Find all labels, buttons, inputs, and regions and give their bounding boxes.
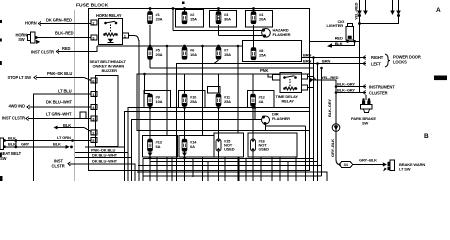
svg-text:4WD IND: 4WD IND xyxy=(9,104,26,109)
svg-text:BRN: BRN xyxy=(303,59,311,64)
svg-text:BLK: BLK xyxy=(8,135,16,140)
svg-text:LT SW: LT SW xyxy=(399,166,411,171)
svg-text:BRN: BRN xyxy=(322,59,330,64)
svg-text:LT BLU: LT BLU xyxy=(58,89,72,94)
svg-text:RIGHT: RIGHT xyxy=(371,55,384,60)
svg-text:4A: 4A xyxy=(259,99,264,104)
svg-text:HORN RELAY: HORN RELAY xyxy=(96,13,122,18)
svg-text:SW: SW xyxy=(362,121,369,126)
svg-text:20A: 20A xyxy=(156,17,163,22)
svg-text:25A: 25A xyxy=(224,99,231,104)
svg-text:25A: 25A xyxy=(190,99,197,104)
svg-text:BLK: BLK xyxy=(8,142,16,147)
svg-text:20A: 20A xyxy=(259,17,266,22)
svg-text:DK GRN–RED: DK GRN–RED xyxy=(46,18,72,23)
svg-text:BLK–GRY: BLK–GRY xyxy=(327,99,332,117)
svg-text:HORN: HORN xyxy=(25,21,37,26)
svg-text:FUSE BLOCK: FUSE BLOCK xyxy=(76,3,109,9)
svg-text:LT GRN–WHT: LT GRN–WHT xyxy=(46,112,72,117)
svg-text:BLK–RED: BLK–RED xyxy=(55,31,74,36)
svg-text:RELAY: RELAY xyxy=(282,99,295,104)
svg-text:BRN: BRN xyxy=(303,53,311,58)
svg-text:CLSTR: CLSTR xyxy=(52,164,65,169)
svg-text:INSTRUMENT: INSTRUMENT xyxy=(369,85,395,90)
svg-text:LEFT: LEFT xyxy=(371,62,381,67)
svg-text:SW: SW xyxy=(18,37,25,42)
svg-text:30A: 30A xyxy=(224,17,231,22)
svg-text:6A: 6A xyxy=(190,144,195,149)
svg-text:INST CLSTR: INST CLSTR xyxy=(2,116,25,121)
svg-text:GRY: GRY xyxy=(21,141,30,146)
svg-text:PNK: PNK xyxy=(260,68,268,73)
svg-text:15A: 15A xyxy=(190,17,197,22)
svg-text:FLASHER: FLASHER xyxy=(272,116,290,121)
svg-text:20A: 20A xyxy=(156,52,163,57)
svg-text:STOP LT SW: STOP LT SW xyxy=(8,75,32,80)
svg-text:25A: 25A xyxy=(259,53,266,58)
svg-text:CLUSTER: CLUSTER xyxy=(369,90,388,95)
svg-text:BUZZER: BUZZER xyxy=(102,68,118,73)
svg-text:10A: 10A xyxy=(190,52,197,57)
svg-text:RED: RED xyxy=(62,46,70,51)
svg-text:LT GRN: LT GRN xyxy=(57,135,71,140)
svg-text:DK BLU–WHT: DK BLU–WHT xyxy=(46,100,72,105)
svg-text:SW: SW xyxy=(0,156,7,161)
svg-text:B: B xyxy=(424,133,429,140)
svg-text:LIGHTER: LIGHTER xyxy=(327,23,344,28)
svg-text:PNK–DK BLU: PNK–DK BLU xyxy=(47,71,72,76)
svg-text:DK BLU–WHT: DK BLU–WHT xyxy=(92,159,118,164)
svg-text:BLK: BLK xyxy=(335,41,343,46)
svg-text:GRY–BLK: GRY–BLK xyxy=(330,139,335,157)
svg-text:GRY–BLK: GRY–BLK xyxy=(359,158,377,163)
svg-text:USED: USED xyxy=(259,147,270,152)
svg-text:YEL–RED: YEL–RED xyxy=(321,75,339,80)
svg-text:DK BLU–WHT: DK BLU–WHT xyxy=(92,152,118,157)
svg-text:BLK: BLK xyxy=(53,142,61,147)
svg-text:6A: 6A xyxy=(156,144,161,149)
svg-text:15A: 15A xyxy=(224,52,231,57)
svg-text:USED: USED xyxy=(224,147,235,152)
svg-text:FLASHER: FLASHER xyxy=(273,32,291,37)
svg-text:BLK–GRY: BLK–GRY xyxy=(337,82,355,87)
svg-text:BLK–GRY: BLK–GRY xyxy=(337,88,355,93)
svg-text:LOCKS: LOCKS xyxy=(393,60,407,65)
svg-text:RED: RED xyxy=(335,36,343,41)
svg-text:A: A xyxy=(436,7,441,14)
svg-text:10A: 10A xyxy=(156,99,163,104)
svg-text:INST CLSTR: INST CLSTR xyxy=(31,50,54,55)
svg-text:YEL–RED: YEL–RED xyxy=(354,2,359,20)
